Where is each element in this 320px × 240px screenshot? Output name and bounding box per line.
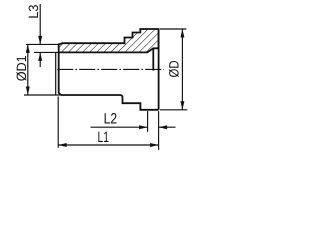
dimension L3 (26, 4, 42, 67)
svg-text:L3: L3 (26, 5, 41, 19)
left face lower (59, 52, 61, 95)
svg-text:ØD: ØD (167, 60, 182, 77)
dimension D1 (14, 44, 30, 95)
flange right face (158, 29, 160, 110)
ext line top-left (26, 43, 59, 45)
dimension D (160, 29, 187, 110)
bore edge line at left end (55, 52, 57, 95)
centerline (57, 68, 164, 70)
dimension L1 (58, 97, 158, 148)
recess edge (152, 48, 154, 70)
svg-text:L1: L1 (98, 129, 110, 146)
section wall (hatched) (59, 29, 159, 52)
ext line bore-left (34, 51, 59, 53)
dimension L2 (91, 110, 176, 149)
bottom outline (61, 95, 159, 110)
svg-text:ØD1: ØD1 (14, 55, 29, 81)
ext line bottom-left (24, 94, 61, 96)
svg-text:L2: L2 (104, 110, 118, 127)
